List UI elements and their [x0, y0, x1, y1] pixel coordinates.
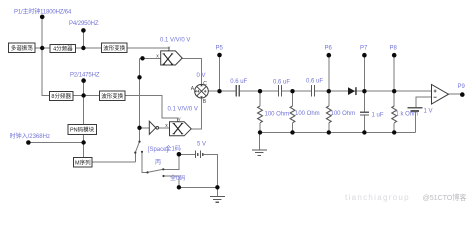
svg-text:0.6 uF: 0.6 uF	[273, 80, 290, 86]
svg-text:波形变换: 波形变换	[103, 44, 126, 52]
svg-text:P1/主时钟11800HZ/64: P1/主时钟11800HZ/64	[14, 8, 72, 16]
svg-text:P5: P5	[216, 45, 224, 51]
svg-text:5 V: 5 V	[197, 142, 206, 148]
svg-text:M序列: M序列	[75, 158, 91, 166]
svg-text:1 k Ohm: 1 k Ohm	[396, 112, 419, 118]
svg-text:0.6 uF: 0.6 uF	[230, 79, 247, 85]
svg-text:波形变换: 波形变换	[101, 92, 124, 100]
svg-text:1 V: 1 V	[424, 109, 433, 115]
svg-text:P8: P8	[390, 45, 398, 51]
svg-text:8分频器: 8分频器	[51, 92, 71, 100]
svg-text:时钟入/2368Hz: 时钟入/2368Hz	[10, 132, 50, 140]
svg-text:4分频器: 4分频器	[53, 44, 73, 52]
svg-text:tianchiagroup: tianchiagroup	[345, 193, 410, 202]
svg-text:P4/2950HZ: P4/2950HZ	[69, 21, 99, 27]
svg-text:100 Ohm: 100 Ohm	[295, 111, 320, 117]
svg-text:PN码模块: PN码模块	[70, 126, 95, 134]
svg-text:P6: P6	[325, 45, 333, 51]
svg-text:C: C	[203, 81, 207, 87]
svg-text:1 uF: 1 uF	[372, 113, 384, 119]
svg-text:多谐振荡: 多谐振荡	[11, 44, 34, 52]
svg-text:0.1 V/V/0 V: 0.1 V/V/0 V	[168, 106, 198, 112]
svg-text:P2/1475HZ: P2/1475HZ	[70, 73, 100, 79]
svg-text:全1码: 全1码	[166, 145, 181, 153]
svg-text:P9: P9	[458, 84, 466, 90]
svg-text:@51CTO博客: @51CTO博客	[423, 193, 467, 202]
svg-text:100 Ohm: 100 Ohm	[265, 112, 290, 118]
svg-text:0.6 uF: 0.6 uF	[306, 79, 323, 85]
svg-text:P7: P7	[360, 45, 368, 51]
svg-text:0 V: 0 V	[197, 73, 206, 79]
svg-text:100 Ohm: 100 Ohm	[331, 111, 356, 117]
svg-text:全0码: 全0码	[170, 174, 185, 182]
svg-text:A: A	[191, 86, 195, 92]
svg-text:丙: 丙	[155, 159, 161, 166]
svg-text:0.1 V/V/0 V: 0.1 V/V/0 V	[160, 37, 190, 43]
svg-text:B: B	[203, 99, 207, 105]
